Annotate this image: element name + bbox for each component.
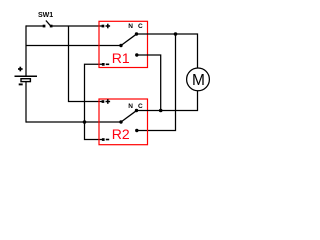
relay R2 coil + terminal (102, 99, 111, 104)
label R1 NC (128, 23, 144, 30)
junction dot NO->motor return rail (159, 109, 163, 113)
wire battery bottom vertical (25, 81, 27, 122)
wire top rail left segment (battery+ to SW1) (26, 25, 43, 27)
relay R1 coil - terminal (102, 63, 109, 66)
relay R1 switch pole and lever (121, 34, 136, 45)
wire R1 coil - to bottom rail (85, 64, 104, 122)
wire mid rail (battery tee to R1 pole) (26, 45, 121, 47)
label R2 (112, 126, 130, 142)
junction dot on NC wire (174, 32, 178, 36)
relay R1 box (99, 21, 148, 67)
wire battery top vertical (25, 25, 27, 76)
relay R2 switch pole and lever (121, 111, 136, 122)
relay R1 coil + terminal (102, 24, 111, 29)
relay R1 NC contact and wire to motor (137, 34, 198, 68)
junction dot at bottom rail (83, 120, 87, 124)
label R2 NC (128, 103, 144, 110)
label M motor (192, 72, 205, 90)
relay R1 NO contact and wire down (137, 55, 161, 111)
wire vertical from top rail down to R2 coil + (69, 26, 104, 102)
relay R2 box (99, 99, 148, 145)
wire R2 coil - up to bottom rail (85, 122, 104, 140)
motor M1 circle (187, 68, 210, 91)
label SW1 (38, 12, 53, 19)
switch SW1 (43, 21, 53, 28)
battery B1 (15, 67, 38, 85)
label R1 (112, 50, 130, 66)
relay R2 NO contact (135, 129, 138, 132)
relay R2 coil - terminal (102, 138, 109, 141)
relay R2 NC contact and motor return rail (137, 91, 198, 111)
wire top rail right segment (SW1 to R1 coil +) (52, 25, 103, 27)
wire bottom rail (battery- to R2 pole) (26, 121, 121, 123)
wire cross link NC junction down to R2 NO (137, 34, 176, 131)
